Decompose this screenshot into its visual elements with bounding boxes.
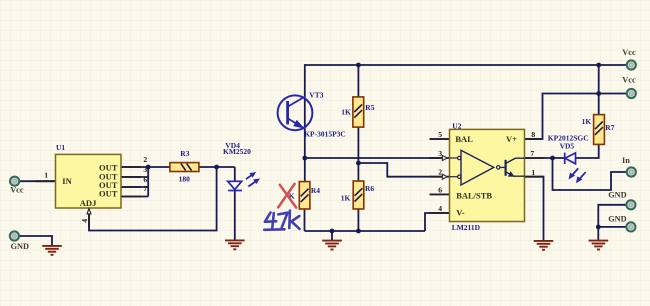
svg-text:BAL/STB: BAL/STB <box>456 191 492 201</box>
junction VD5 anode <box>550 156 555 161</box>
svg-text:U1: U1 <box>56 143 65 152</box>
wire node In branch <box>553 158 627 190</box>
svg-text:4: 4 <box>80 219 89 223</box>
svg-text:R3: R3 <box>180 149 189 158</box>
wire U1 pin 6 stub <box>121 186 148 188</box>
red X annotation over R4 value <box>278 184 296 208</box>
svg-text:KM2520: KM2520 <box>223 147 251 156</box>
svg-text:R7: R7 <box>605 123 614 132</box>
svg-text:R5: R5 <box>365 103 374 112</box>
svg-text:3: 3 <box>438 149 442 158</box>
svg-text:7: 7 <box>530 149 534 158</box>
wire VD5 cathode to R7 bottom <box>576 144 599 158</box>
svg-text:7: 7 <box>143 184 147 193</box>
wire R4 bottom lead <box>304 209 306 231</box>
svg-text:3: 3 <box>143 165 147 174</box>
junction ground rail left <box>330 229 335 234</box>
wire GND port 1 <box>598 205 626 227</box>
diode VD5 <box>565 153 586 184</box>
wire GND port left <box>19 236 52 246</box>
resistor R6 <box>353 181 364 209</box>
U2 output transistor <box>500 158 525 177</box>
wire node A to U2 pin 3 <box>305 157 450 159</box>
resistor R4 <box>299 182 310 209</box>
svg-text:V-: V- <box>456 208 465 218</box>
ground U2 pin 1 <box>534 241 554 250</box>
ground right <box>589 241 609 250</box>
wire U2 pin 7 to VD5 <box>525 157 565 159</box>
U1 ADJ pin arrow <box>87 209 91 214</box>
junction node B <box>356 161 361 166</box>
svg-text:U2: U2 <box>452 121 461 130</box>
wire U1 pin 2 to R3 <box>121 166 170 168</box>
wire U2 pin 8 to Vcc <box>525 94 627 140</box>
svg-text:In: In <box>622 156 630 165</box>
ground middle rail <box>322 231 342 250</box>
junction ground rail R6 <box>356 229 361 234</box>
wire R3 to VD4 <box>199 166 235 168</box>
svg-text:LM211D: LM211D <box>452 223 481 232</box>
wire U2 pin 6 stub <box>430 193 450 195</box>
port Vcc top right <box>622 48 636 70</box>
svg-text:6: 6 <box>438 185 442 194</box>
svg-text:8: 8 <box>531 130 535 139</box>
port GND left <box>10 231 29 250</box>
port Vcc left <box>10 177 24 195</box>
svg-text:1K: 1K <box>582 117 592 126</box>
port GND right 1 <box>608 191 635 210</box>
wire ground rail <box>305 230 426 232</box>
svg-text:IN: IN <box>62 176 72 186</box>
transistor VT3 <box>278 95 313 130</box>
svg-text:ADJ: ADJ <box>80 198 97 208</box>
junction GND ports <box>596 225 601 230</box>
wire U1 outputs vertical tie <box>147 167 149 197</box>
wire U2 pin 5 stub <box>430 138 450 140</box>
wire VT3 collector-emitter column <box>304 64 306 182</box>
wire Vcc top rail <box>305 64 627 66</box>
svg-text:1K: 1K <box>341 107 351 116</box>
wire U1 pin 3 stub <box>121 176 148 178</box>
wire U2 pin 4 to ground rail <box>425 213 450 231</box>
wire U1 pin 7 stub <box>121 196 148 198</box>
wire R5 top lead <box>357 65 359 97</box>
svg-text:Vcc: Vcc <box>622 48 636 57</box>
svg-text:1K: 1K <box>341 194 351 203</box>
pin stubs (black) <box>36 139 545 213</box>
handwritten 47k annotation <box>264 211 299 230</box>
wire VD4 cathode to ground <box>234 190 236 239</box>
wire VD4 anode drop <box>234 167 236 182</box>
ground left <box>42 246 62 255</box>
svg-text:180: 180 <box>179 174 191 183</box>
svg-text:V+: V+ <box>506 134 517 144</box>
wire R6 bottom lead <box>357 209 359 231</box>
svg-text:GND: GND <box>11 242 29 251</box>
svg-text:Vcc: Vcc <box>622 76 636 85</box>
svg-text:VD5: VD5 <box>560 142 575 151</box>
op-amp U2 triangle <box>442 150 500 185</box>
junction Vcc2 R7 <box>596 91 601 96</box>
wire U2 pin 1 to ground <box>525 177 544 241</box>
svg-text:5: 5 <box>438 130 442 139</box>
resistor R5 <box>353 97 364 127</box>
junction node A <box>302 156 307 161</box>
wire Vcc port to U1 pin 1 <box>19 180 56 182</box>
port Vcc right 2 <box>622 76 636 98</box>
resistor R7 <box>594 115 605 145</box>
junction R3 feedback node <box>214 165 219 170</box>
svg-text:4: 4 <box>438 204 442 213</box>
wire Vcc rail to R7 top <box>598 65 600 115</box>
svg-text:GND: GND <box>608 214 626 223</box>
svg-text:R4: R4 <box>311 186 320 195</box>
svg-text:1: 1 <box>44 171 48 180</box>
junction U1 outputs <box>146 165 151 170</box>
ground below VD4 <box>225 240 245 249</box>
svg-text:R6: R6 <box>365 184 374 193</box>
port In <box>622 156 636 176</box>
svg-text:BAL: BAL <box>455 134 473 144</box>
wire node B to U2 pin 2 <box>358 163 449 177</box>
wire R5 bottom to R6 top <box>357 127 359 181</box>
svg-text:1: 1 <box>531 168 535 177</box>
junction Vcc rail R7 <box>596 63 601 68</box>
svg-text:Vcc: Vcc <box>10 186 24 195</box>
svg-text:2: 2 <box>143 155 147 164</box>
port GND right 2 <box>608 214 635 231</box>
wire ADJ feedback <box>89 167 217 231</box>
svg-text:VT3: VT3 <box>309 91 323 100</box>
svg-text:KP2012SGC: KP2012SGC <box>548 133 589 142</box>
wire GND port 2 to ground <box>598 227 626 241</box>
svg-text:GND: GND <box>608 191 626 200</box>
junction R5 top <box>356 63 361 68</box>
svg-text:OUT: OUT <box>99 189 118 199</box>
svg-text:2: 2 <box>438 168 442 177</box>
diode VD4 <box>228 172 260 191</box>
svg-text:KP-3015P3C: KP-3015P3C <box>304 129 346 138</box>
regulator U1 body <box>56 154 122 208</box>
resistor R3 <box>170 163 199 172</box>
comparator U2 body <box>450 129 525 221</box>
svg-text:6: 6 <box>143 175 147 184</box>
